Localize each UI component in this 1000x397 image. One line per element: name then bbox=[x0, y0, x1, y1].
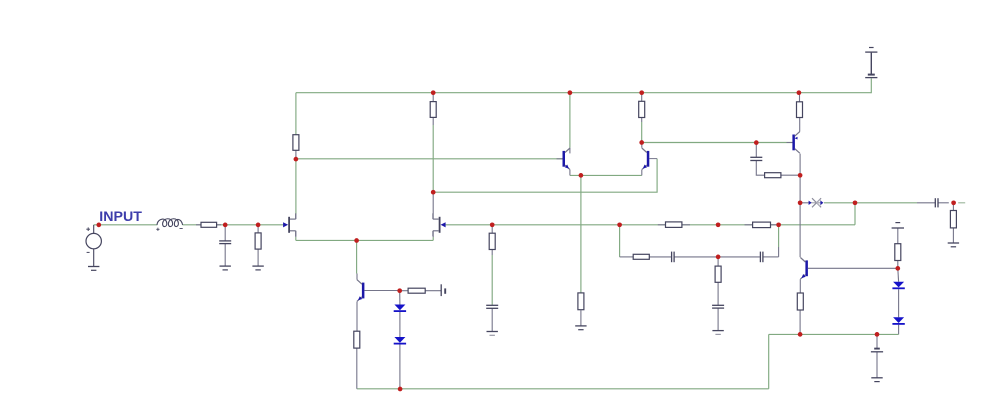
svg-text:INPUT: INPUT bbox=[99, 209, 142, 225]
